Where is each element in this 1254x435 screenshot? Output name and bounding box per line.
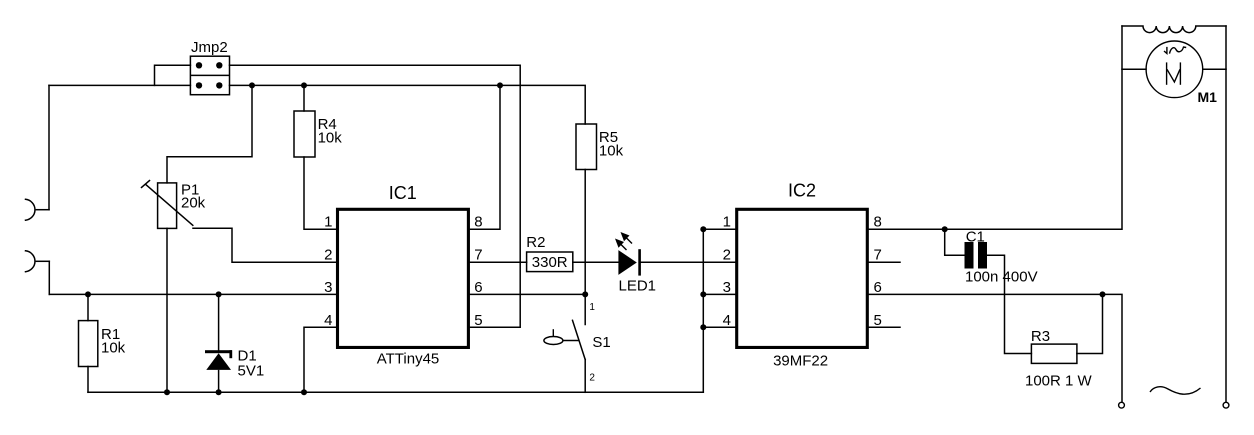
svg-text:1: 1 <box>723 214 731 231</box>
jumper Jmp2 <box>190 39 229 94</box>
AC sine symbol <box>1150 387 1201 394</box>
wire top bus y=85 left of Jmp2 <box>49 84 190 86</box>
svg-text:6: 6 <box>474 279 482 296</box>
svg-text:IC1: IC1 <box>389 183 417 203</box>
wire X2 riser to mid bus <box>48 261 50 294</box>
wire IC2 left common vertical <box>702 229 704 392</box>
svg-text:20k: 20k <box>181 194 206 211</box>
connector pad X1 <box>26 199 50 220</box>
svg-text:100n 400V: 100n 400V <box>965 268 1038 285</box>
wire IC1 pin4 to ground bus <box>304 327 338 392</box>
IC2 body <box>737 181 868 370</box>
svg-text:5: 5 <box>474 312 482 329</box>
AC terminal right <box>1223 402 1229 408</box>
svg-text:4: 4 <box>324 312 332 329</box>
wire jog to Jmp2 top row <box>155 65 191 85</box>
svg-text:330R: 330R <box>532 254 568 271</box>
junction R5/S1 at IC1 pin6 net <box>582 291 588 297</box>
wire to P1 top <box>167 85 252 182</box>
svg-text:C1: C1 <box>966 229 985 246</box>
wire C1 right lead to R3 <box>987 255 1031 353</box>
wire R4 bottom to IC1 pin1 <box>304 157 338 229</box>
junction IC1 pin4 riser at ground bus <box>301 389 307 395</box>
junction P1 bottom at ground bus <box>164 389 170 395</box>
wire D1 bottom <box>218 371 220 393</box>
wire LED1 to IC2 pin2 <box>640 261 737 263</box>
svg-text:3: 3 <box>324 279 332 296</box>
wire IC2 pin5 stub <box>867 326 900 328</box>
svg-text:3: 3 <box>723 279 731 296</box>
svg-text:LED1: LED1 <box>619 278 657 295</box>
junction IC2 pin1 <box>700 226 706 232</box>
svg-text:2: 2 <box>324 247 332 264</box>
IC1 body <box>338 183 469 368</box>
wire Jmp2 top row right to IC1 pin5 <box>230 65 521 327</box>
junction C1 tap at IC2 pin8 net <box>942 226 948 232</box>
svg-text:10k: 10k <box>318 130 343 147</box>
resistor R3 <box>1025 328 1093 389</box>
wire R3 right lead to pin6 node <box>1077 294 1103 353</box>
IC1 pin numbers <box>324 214 482 330</box>
connector pad X2 <box>26 251 50 272</box>
svg-text:1: 1 <box>589 302 595 313</box>
wire M1 right leg to AC right terminal <box>1225 26 1227 402</box>
junction R1 top at pin3 net <box>85 291 91 297</box>
junction P1 top at supply bus <box>249 82 255 88</box>
svg-text:8: 8 <box>874 214 882 231</box>
resistor R1 <box>79 321 126 367</box>
svg-text:R2: R2 <box>526 234 545 251</box>
svg-text:5: 5 <box>874 312 882 329</box>
wire IC1 pin7 to R2 <box>468 261 526 263</box>
wire IC1 pin6 to node <box>468 293 585 295</box>
wire D1 top <box>218 294 220 351</box>
wire X1 riser to top bus <box>48 85 50 209</box>
AC terminal left <box>1119 402 1125 408</box>
svg-text:S1: S1 <box>592 334 610 351</box>
wire M1 right branch <box>1203 68 1226 70</box>
motor M1 <box>1146 41 1217 105</box>
junction R3 tap at IC2 pin6 net <box>1100 291 1106 297</box>
wire IC2 pin7 stub <box>867 261 900 263</box>
junction IC2 pin3 <box>700 291 706 297</box>
svg-text:ATTiny45: ATTiny45 <box>377 351 440 368</box>
wire R1 bottom <box>87 367 89 393</box>
wire IC2 pin6 to AC left terminal <box>867 294 1122 402</box>
junction IC2 pin4 <box>700 324 706 330</box>
wire IC2 pin8 to M1 left leg <box>867 26 1122 229</box>
wire M1 top <box>1122 26 1226 33</box>
svg-text:39MF22: 39MF22 <box>773 353 828 370</box>
switch S1 <box>544 302 611 384</box>
wire R4 top <box>303 85 305 111</box>
wire IC2 pin3 stub <box>703 293 736 295</box>
svg-text:2: 2 <box>589 373 595 384</box>
svg-text:Jmp2: Jmp2 <box>191 39 228 56</box>
wire ground bus <box>88 391 703 393</box>
capacitor C1 <box>965 229 1038 286</box>
junction R4 top at supply bus <box>301 82 307 88</box>
svg-text:M1: M1 <box>1198 89 1218 105</box>
svg-text:100R 1 W: 100R 1 W <box>1025 372 1093 389</box>
wire IC2 pin4 stub <box>703 326 736 328</box>
resistor R2 <box>526 234 573 272</box>
wire C1 left lead <box>945 229 965 255</box>
svg-text:10k: 10k <box>599 143 624 160</box>
wire R2 to LED1 <box>573 261 619 263</box>
svg-text:7: 7 <box>874 247 882 264</box>
svg-text:1: 1 <box>324 214 332 231</box>
wire Jmp2 bottom row right to R5 top <box>230 85 586 124</box>
junction pin8 riser at supply bus <box>497 82 503 88</box>
svg-text:8: 8 <box>474 214 482 231</box>
svg-text:2: 2 <box>723 247 731 264</box>
potentiometer P1 <box>142 181 206 229</box>
wire R1 top <box>87 294 89 320</box>
wire mid bus y=293.5 to IC1 pin3 <box>49 293 337 295</box>
IC2 pin numbers <box>723 214 882 330</box>
junction D1 top at pin3 net <box>216 291 222 297</box>
zener diode D1 <box>205 347 264 379</box>
resistor R5 <box>576 124 624 170</box>
svg-text:6: 6 <box>874 279 882 296</box>
wire S1 bottom riser <box>584 360 586 393</box>
svg-text:R3: R3 <box>1031 328 1050 345</box>
svg-text:7: 7 <box>474 247 482 264</box>
svg-text:4: 4 <box>723 312 731 329</box>
wire M1 left branch <box>1122 68 1146 70</box>
wire P1 bottom to ground bus <box>166 228 168 392</box>
wire riser to IC1 pin8 <box>468 85 500 229</box>
svg-text:5V1: 5V1 <box>238 362 265 379</box>
svg-text:IC2: IC2 <box>788 181 816 201</box>
junction D1 bottom at ground bus <box>216 389 222 395</box>
wire P1 wiper to IC1 pin2 <box>193 228 338 262</box>
wire R5 bottom to S1 <box>584 170 586 325</box>
svg-text:10k: 10k <box>101 339 126 356</box>
wire IC2 pin1 stub <box>703 228 736 230</box>
LED LED1 <box>615 232 656 295</box>
resistor R4 <box>294 111 342 157</box>
